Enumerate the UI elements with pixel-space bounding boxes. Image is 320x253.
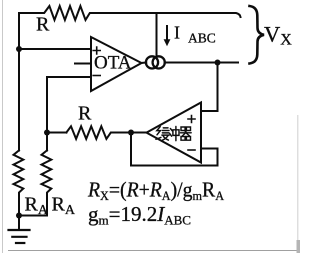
wire: middle node line (47, 132, 147, 134)
wire: top horizontal rail (19, 13, 241, 17)
resistor RA2 (right vertical) (19, 150, 51, 215)
glyph 冲 (170, 129, 172, 137)
U1 minus sign (93, 75, 100, 77)
scan artifact left edge (2, 0, 4, 253)
op-amp U1 OTA body (91, 37, 142, 91)
svg-text:I: I (174, 23, 180, 43)
resistor R2 (middle) (66, 126, 111, 139)
node dot A (left rail / + input) (16, 46, 22, 52)
wire: V_X tap down to buffer + (201, 63, 218, 112)
wire: bias drop from top rail (156, 13, 158, 56)
wire: left vertical rail (18, 13, 20, 151)
resistor R1 (top) (43, 6, 93, 20)
svg-text:R: R (36, 14, 50, 36)
label 缓冲器 (buffer) hand-drawn glyphs (156, 127, 191, 141)
wire: buffer feedback loop (131, 133, 218, 166)
wire: OTA + input (19, 48, 91, 50)
glyph 缓 (156, 127, 161, 140)
ground (18, 216, 20, 230)
node dot B (output / VX tap) (215, 60, 221, 66)
equation line 1 (87, 179, 225, 203)
wire: output to right (165, 62, 238, 64)
svg-text:ABC: ABC (188, 31, 216, 46)
scan artifact bottom edge (8, 250, 300, 252)
svg-text:OTA: OTA (94, 53, 132, 74)
glyph 器 (181, 127, 191, 140)
equation line 2 (88, 202, 191, 228)
arrowhead I_ABC (164, 39, 171, 46)
wire: OTA tip to circles (141, 62, 146, 65)
current source circles (146, 56, 158, 68)
arrow I_ABC (166, 26, 168, 40)
U2 plus sign (188, 116, 195, 123)
scan artifact right edge (297, 115, 299, 253)
svg-text:R: R (78, 103, 92, 125)
node dot E (RA bottom / ground) (16, 213, 22, 219)
brace VX (250, 6, 265, 64)
U1 plus sign (93, 47, 100, 54)
node dot D (R / buffer out) (128, 130, 134, 136)
wire: node down to RA right (46, 133, 48, 151)
op-amp U2 buffer body (147, 103, 202, 163)
node dot C (feedback / R / RA2) (44, 130, 50, 136)
resistor RA1 (left vertical) (14, 150, 24, 215)
U1 middle stub (75, 63, 91, 65)
wire: OTA - input feedback (47, 77, 91, 133)
U2 minus sign (188, 149, 195, 151)
